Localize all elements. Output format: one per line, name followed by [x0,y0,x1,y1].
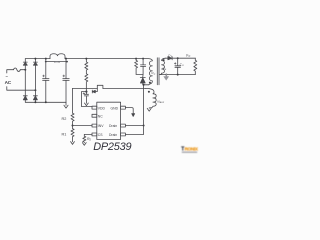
transformer core [157,58,159,85]
label Cvdd plus [83,93,85,95]
wire output top [172,57,195,59]
diode BR2 bottom [33,95,37,97]
diode BR2 top [33,61,37,63]
node bottomrail-leg2 [34,101,36,103]
diode BR1 bottom [23,95,27,97]
diode D1 vdd [91,90,93,93]
label R2 [62,117,67,121]
capacitor Cvdd [84,92,88,104]
svg-text:CS: CS [98,133,103,137]
wire AC bottom lead [7,87,36,91]
wire divider drop [72,88,74,113]
wire drain riser [143,85,145,135]
node rail-snubC [142,58,144,60]
label NP [151,71,155,76]
wire AC top lead [7,70,14,73]
ground secondary arrow [164,75,169,81]
wire bridge leg2 [34,59,36,103]
pin Drain2 box [121,133,126,136]
node drain junction [143,125,145,127]
label Naux [157,99,164,104]
pin GND box [121,106,126,109]
resistor Rs [83,136,86,143]
node underwire left [45,61,47,63]
svg-text:~: ~ [5,74,8,79]
fuse F1 [14,68,21,71]
node Co top [177,57,179,59]
node VDD junction [85,91,87,93]
wire output bottom rail [160,74,196,76]
node primary phase dot [149,82,151,84]
node secondary phase dot [163,59,165,61]
ground R1 arrow [71,142,75,145]
resistor R1 [71,126,74,142]
svg-text:NC: NC [98,114,103,118]
label Co plus [174,63,176,65]
label D2 [168,54,172,59]
wire under inductor [46,61,67,63]
node rail-leg2 [34,58,36,60]
wire secondary to D2 [166,57,168,59]
wire hop [97,85,103,88]
ground bottom-rail arrow [64,102,68,108]
label C1 plus [43,75,45,77]
label NS [162,66,166,71]
diode D3 clamp [140,74,145,77]
svg-text:R2: R2 [62,117,67,121]
capacitor C1 [43,59,49,103]
wire top rail mid [65,58,136,60]
svg-text:AUX: AUX [159,101,165,104]
node INV junction [72,125,74,127]
label DP2539 [93,141,131,153]
resistor R2 [71,113,74,125]
capacitor Co [175,58,181,74]
wire GND pin [125,108,133,114]
wire INV [73,125,93,127]
wire aux feedback A left [73,87,98,89]
wire bottom rail [25,101,66,103]
ground Rs arrow [82,143,86,146]
pin Drain1 box [121,124,126,127]
node Co bottom [177,74,179,76]
svg-text:Drain: Drain [109,133,117,137]
node underwire right [66,61,68,63]
resistor Rst1 startup upper [85,59,88,74]
AC source label [5,74,12,85]
node sec ground junction [165,74,167,76]
svg-text:R1: R1 [62,133,67,137]
ground GND arrow [132,114,135,117]
svg-text:DP2539: DP2539 [93,141,131,153]
svg-text:Drain: Drain [109,124,117,128]
wire Drain2 [125,133,143,135]
node aux phase dot [148,91,150,93]
node drain-primary [143,84,145,86]
diode BR1 top [23,61,27,63]
label Co [180,62,184,67]
logo watermark [181,146,199,152]
svg-text:INV: INV [98,124,104,128]
pin INV box [92,124,97,127]
svg-text:O: O [188,55,190,58]
wire bridge leg1 [24,59,26,103]
wire primary bottom [143,84,149,86]
wire VDD loop [81,92,92,107]
op-amp U1 DP2539 body [97,102,121,139]
label C2 plus [63,75,65,77]
node rail-C1 [45,58,47,60]
svg-text:RONIX: RONIX [185,146,199,151]
transformer T1 primary [136,59,152,85]
label L1 value [54,60,60,64]
resistor Rst2 startup lower [85,74,88,92]
pin CS box [92,133,97,136]
wire Drain1 [125,125,143,127]
node AC-top junction [24,69,26,71]
node bottomrail-C1 [45,101,47,103]
pin VDD box [92,106,97,109]
resistor Rload [194,58,197,74]
pin NC box [92,114,97,117]
capacitor Csn snubber [141,59,146,75]
transformer secondary [160,58,166,74]
diode D2 output [168,57,172,60]
wire top rail left [25,58,50,60]
wire aux feedback A right [103,88,146,90]
wire snubber join [136,73,143,75]
node rail-startup [85,58,87,60]
resistor Rsn snubber [135,59,138,75]
svg-text:O: O [182,65,184,67]
transformer aux winding [146,88,156,108]
pin labels left [98,106,106,137]
svg-text:1mH: 1mH [54,60,60,64]
wire CS [84,134,92,136]
pin labels right [109,106,119,137]
svg-text:VDD: VDD [98,106,106,110]
wire fuse to bridge [20,69,25,71]
ground Cvdd arrow [85,103,89,106]
node rail-snubR [135,58,137,60]
label R1 [62,133,67,137]
label Rs [87,137,91,142]
inductor L1 [50,54,65,59]
ground aux arrow [147,108,151,111]
svg-text:GND: GND [111,106,119,110]
node rail-C2 [65,58,67,60]
node AC-bottom junction [34,89,36,91]
label Vo [186,53,191,58]
capacitor C2 [63,59,69,103]
wire D1 anode [95,88,97,91]
svg-text:AC: AC [5,80,12,85]
